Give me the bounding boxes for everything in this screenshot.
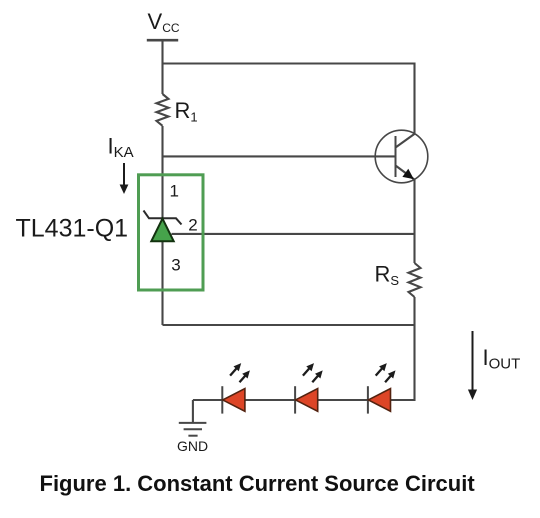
LED D2 emission arrow 1 xyxy=(303,363,314,376)
LED D1 emission arrow 2 xyxy=(240,370,250,382)
LED D3 emission arrow 1 xyxy=(376,363,387,376)
wire: LED string horizontal wire xyxy=(193,399,391,401)
IOUT current arrow xyxy=(468,331,477,400)
svg-text:3: 3 xyxy=(171,256,180,275)
wire: bottom horizontal rail (anode to Rs bottom node) xyxy=(163,324,415,326)
wire: ground drop xyxy=(192,400,194,423)
TL431-Q1 highlight box xyxy=(139,175,204,290)
transistor Q1 base bar xyxy=(395,136,397,177)
transistor Q1 emitter stroke with arrow xyxy=(396,166,415,180)
wire: right vertical from emitter through Rs to LED string xyxy=(413,180,415,263)
ground symbol xyxy=(179,423,207,436)
LED D2 body (diode triangle) xyxy=(296,389,318,412)
LED D3 body (diode triangle) xyxy=(368,389,390,412)
LED D3 emission arrow 2 xyxy=(385,370,395,382)
wire: Vcc supply bar xyxy=(147,39,178,42)
resistor RS zigzag xyxy=(409,263,421,297)
LED D3 cathode bar xyxy=(367,386,369,413)
TL431 shunt regulator triangle xyxy=(151,219,173,242)
svg-text:1: 1 xyxy=(170,181,179,200)
LED D2 emission arrow 2 xyxy=(312,370,322,382)
TL431 cathode bar with ticks xyxy=(144,211,182,225)
svg-text:GND: GND xyxy=(177,438,208,454)
LED D1 emission arrow 1 xyxy=(230,363,241,376)
svg-text:2: 2 xyxy=(188,216,197,235)
wire: base wire from left rail to transistor base xyxy=(163,155,396,157)
wire: Vcc vertical down to R1 xyxy=(161,40,163,94)
LED D1 cathode bar xyxy=(221,386,223,413)
wire: top horizontal rail to collector branch xyxy=(163,64,415,134)
LED D1 body (diode triangle) xyxy=(223,389,245,412)
transistor Q1 collector stroke xyxy=(396,134,415,148)
transistor Q1 circle xyxy=(375,130,428,183)
IKA current arrow xyxy=(120,163,129,194)
LED D2 cathode bar xyxy=(294,386,296,413)
wire: right vertical below Rs down to LED wire corner xyxy=(391,297,415,400)
svg-text:TL431-Q1: TL431-Q1 xyxy=(16,215,129,243)
svg-text:Figure 1. Constant Current Sou: Figure 1. Constant Current Source Circui… xyxy=(40,471,476,496)
resistor R1 zigzag xyxy=(157,94,169,126)
wire: left vertical from R1 through TL431 to bottom rail xyxy=(161,126,163,325)
wire: TL431 reference (pin 2) wire to right rail xyxy=(172,233,415,235)
